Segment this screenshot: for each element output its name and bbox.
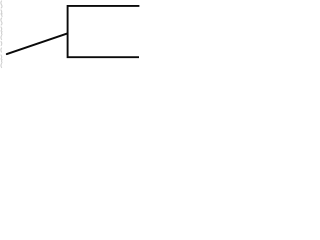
- scan artifacts: faint cut-off characters along left edge: [1, 1, 2, 68]
- background: [0, 0, 155, 70]
- box (rectangle open on right side): top, left and bottom edges: [68, 6, 140, 57]
- diagonal line from lower-left up to box left edge: [7, 33, 68, 54]
